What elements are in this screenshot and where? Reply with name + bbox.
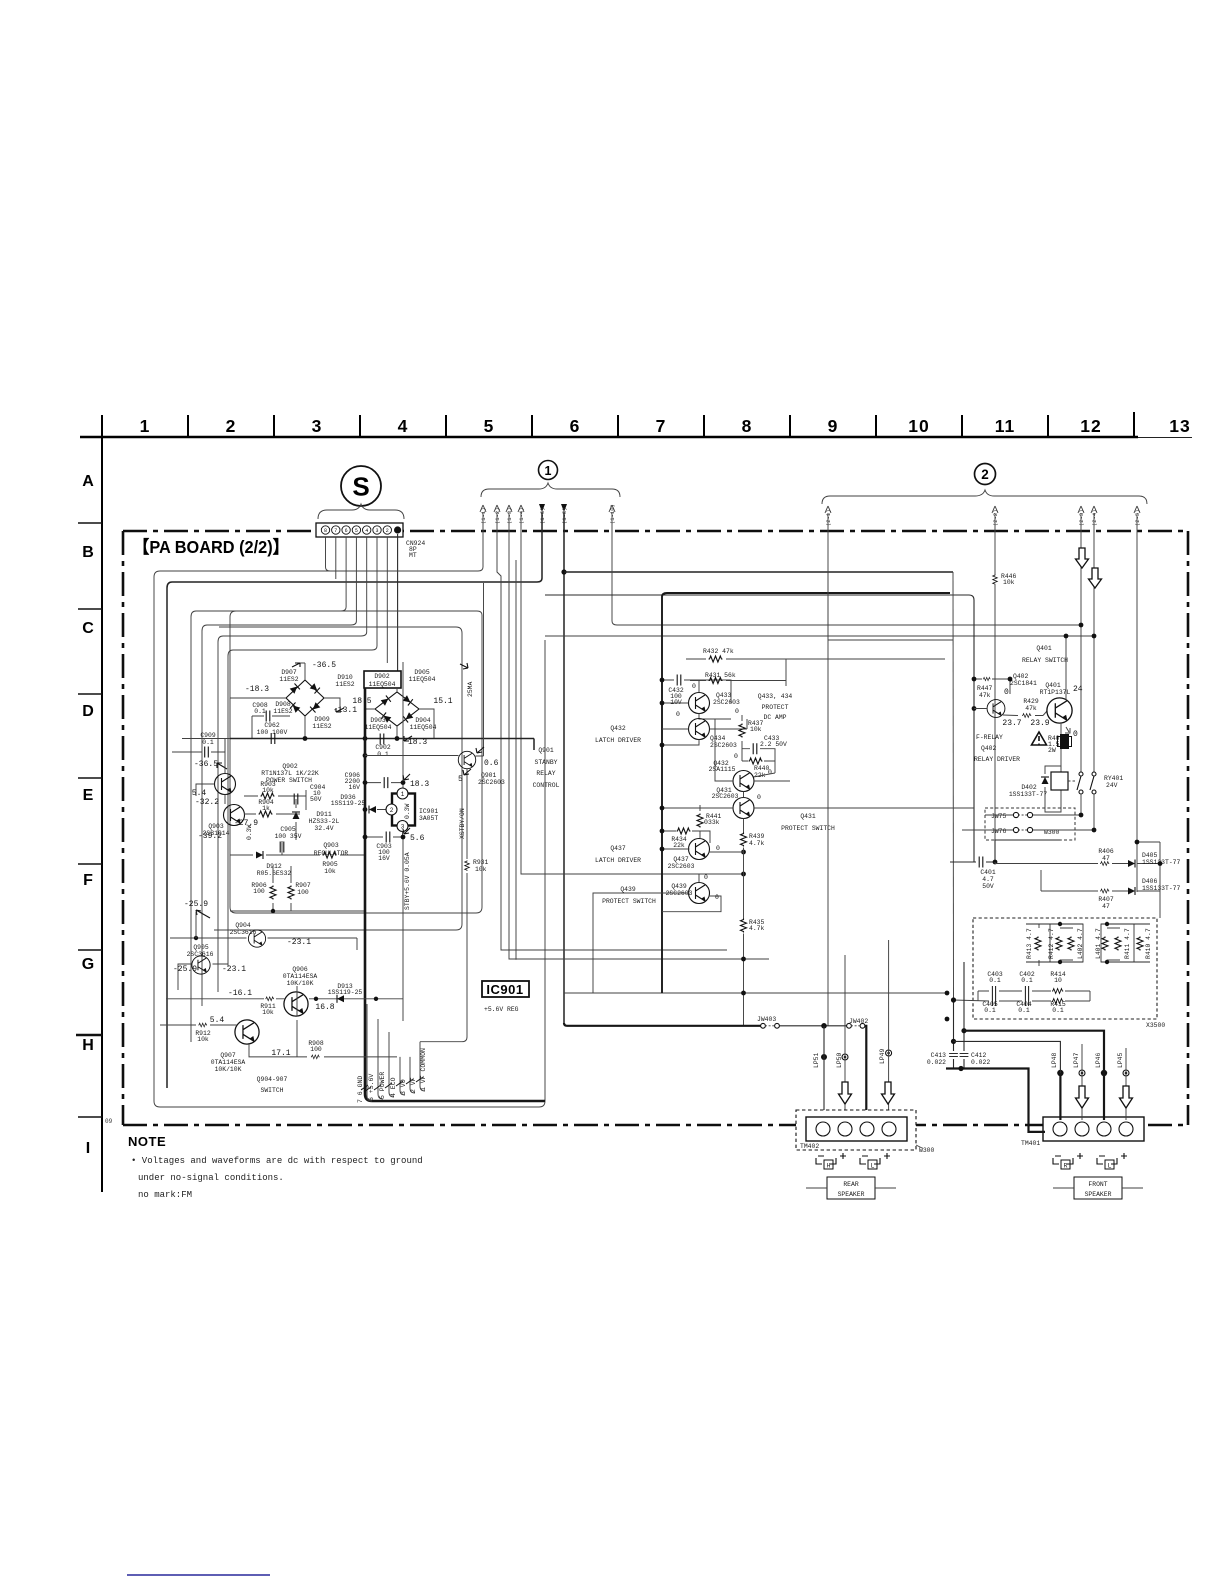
- svg-text:RELAY DRIVER: RELAY DRIVER: [974, 756, 1020, 763]
- FRONT SPEAKER: [1074, 1177, 1122, 1199]
- svg-text:2SC2603: 2SC2603: [668, 863, 695, 870]
- svg-text:X3500: X3500: [1146, 1022, 1165, 1029]
- svg-text:IC901: IC901: [486, 982, 523, 997]
- cap C433: [760, 735, 787, 748]
- svg-text:C962: C962: [264, 722, 280, 729]
- svg-text:(2-3): (2-3): [1078, 509, 1085, 526]
- svg-text:2SC2603: 2SC2603: [713, 699, 740, 706]
- hollow arrow LP47: [1076, 1086, 1089, 1108]
- svg-text:3: 3: [312, 416, 323, 436]
- svg-text:LATCH DRIVER: LATCH DRIVER: [595, 857, 641, 864]
- svg-text:1SS119-25: 1SS119-25: [331, 800, 366, 807]
- svg-text:0.1: 0.1: [1021, 977, 1033, 984]
- column numbers: [140, 416, 1191, 436]
- svg-text:D905: D905: [414, 669, 430, 676]
- svg-text:(2-2): (2-2): [992, 509, 999, 526]
- circled ref 2: [822, 464, 1147, 505]
- svg-text:7: 7: [334, 528, 337, 534]
- svg-text:R447: R447: [977, 685, 993, 692]
- svg-text:100: 100: [253, 888, 265, 895]
- svg-text:16V: 16V: [378, 855, 390, 862]
- cap C906: [345, 772, 361, 791]
- svg-text:18.3: 18.3: [410, 780, 429, 789]
- brace above CN924: [318, 504, 404, 519]
- heavy GND bus x364: [365, 688, 545, 1101]
- wire 1-2 drop: [497, 512, 727, 950]
- transistor Q905: [192, 956, 210, 974]
- svg-text:L401 4.7: L401 4.7: [1095, 928, 1102, 959]
- svg-text:R905: R905: [322, 861, 338, 868]
- svg-text:D405: D405: [1142, 852, 1158, 859]
- transistor Q401: [1047, 698, 1072, 723]
- svg-text:0.022: 0.022: [971, 1059, 990, 1066]
- svg-text:32.4V: 32.4V: [314, 825, 333, 832]
- svg-text:10k: 10k: [262, 1009, 274, 1016]
- wire pin8 drop: [326, 537, 479, 571]
- svg-text:5.4: 5.4: [192, 789, 207, 798]
- svg-text:D: D: [82, 703, 94, 720]
- svg-text:0.1: 0.1: [1018, 1007, 1030, 1014]
- svg-text:LP47: LP47: [1073, 1052, 1080, 1068]
- coil L402: [1068, 937, 1074, 951]
- svg-text:2: 2: [226, 416, 237, 436]
- svg-text:Q907: Q907: [220, 1052, 236, 1059]
- node 2-3: [1079, 623, 1084, 628]
- wire pin3 loop: [228, 537, 377, 966]
- svg-text:Q439: Q439: [620, 886, 636, 893]
- svg-text:24: 24: [1073, 685, 1083, 694]
- node j1: [561, 569, 566, 574]
- svg-text:LP49: LP49: [879, 1048, 886, 1064]
- row letters: [82, 473, 94, 1157]
- transistor Q432: [733, 771, 754, 792]
- diode D913: [337, 995, 344, 1003]
- svg-text:Q905: Q905: [193, 944, 209, 951]
- svg-text:2SC3616: 2SC3616: [187, 951, 214, 958]
- cap C401: [979, 857, 983, 868]
- svg-text:R412 4.7: R412 4.7: [1048, 928, 1055, 959]
- svg-text:Q904-907: Q904-907: [257, 1076, 288, 1083]
- svg-text:4 ECO: 4 ECO: [390, 1077, 397, 1097]
- svg-text:0.1: 0.1: [1052, 1007, 1064, 1014]
- resistor R908: [311, 1055, 320, 1059]
- row ticks: [76, 523, 102, 1117]
- svg-text:33k: 33k: [708, 819, 720, 826]
- zener D911: [292, 812, 300, 819]
- svg-text:(2-1): (2-1): [825, 509, 832, 526]
- resistor R447: [983, 677, 991, 680]
- Q431 PROTECT SWITCH label: [781, 813, 835, 832]
- svg-text:-36.5: -36.5: [312, 661, 336, 670]
- svg-text:0: 0: [716, 845, 720, 852]
- svg-text:Q402: Q402: [1013, 673, 1029, 680]
- svg-text:2SC2603: 2SC2603: [478, 779, 505, 786]
- svg-text:-16.1: -16.1: [228, 989, 252, 998]
- svg-text:100: 100: [310, 1046, 322, 1053]
- svg-text:0.022: 0.022: [927, 1059, 946, 1066]
- svg-text:【PA BOARD (2/2)】: 【PA BOARD (2/2)】: [133, 537, 289, 557]
- svg-text:C905: C905: [280, 826, 296, 833]
- svg-text:-13.1: -13.1: [333, 706, 357, 715]
- svg-text:5: 5: [484, 416, 495, 436]
- wire y595 right: [545, 595, 974, 862]
- inner rect R2: [214, 627, 462, 930]
- wire y571 to center box: [564, 571, 953, 573]
- svg-text:2: 2: [390, 807, 394, 814]
- wire 2-1 drop: [827, 513, 829, 1026]
- cap C962: [230, 698, 252, 739]
- svg-text:0: 0: [1004, 688, 1009, 697]
- svg-text:Q903: Q903: [208, 823, 224, 830]
- wire c413 verticals: [954, 962, 965, 1069]
- polarity marks TM402: [818, 1153, 890, 1159]
- transistor Q402: [987, 700, 1005, 718]
- resistor R435: [749, 919, 765, 932]
- svg-text:11ES2: 11ES2: [335, 681, 354, 688]
- svg-text:23.7: 23.7: [1002, 719, 1021, 728]
- svg-text:-36.5: -36.5: [194, 760, 218, 769]
- svg-text:1SS133T-77: 1SS133T-77: [1142, 885, 1181, 892]
- svg-text:4: 4: [365, 528, 368, 534]
- diode D936: [369, 806, 376, 814]
- svg-text:D402: D402: [1021, 784, 1037, 791]
- svg-text:2SC3616: 2SC3616: [230, 929, 257, 936]
- svg-text:23.9: 23.9: [1030, 719, 1049, 728]
- svg-text:D908: D908: [275, 701, 291, 708]
- svg-text:10K/10K: 10K/10K: [215, 1066, 242, 1073]
- Q901 STANBY RELAY CONTROL label: [533, 747, 560, 789]
- svg-text:0: 0: [757, 794, 761, 801]
- svg-text:CONTROL: CONTROL: [533, 782, 560, 789]
- svg-text:0: 0: [715, 894, 719, 901]
- svg-text:5 POWER: 5 POWER: [379, 1072, 386, 1099]
- transistor Q433: [689, 693, 710, 714]
- relay contacts: [1077, 772, 1096, 794]
- svg-text:Q901: Q901: [538, 747, 554, 754]
- wire 1-8 thick bus: [563, 512, 565, 1024]
- svg-text:JW402: JW402: [849, 1018, 868, 1025]
- svg-text:22k: 22k: [673, 842, 685, 849]
- svg-text:RY401: RY401: [1104, 775, 1123, 782]
- svg-text:11EQ504: 11EQ504: [365, 724, 392, 731]
- svg-text:0.6: 0.6: [484, 759, 499, 768]
- diode D402: [1041, 777, 1049, 784]
- transistor Q904: [248, 930, 265, 947]
- svg-text:NOTE: NOTE: [128, 1134, 166, 1149]
- F-RELAY Q402 RELAY DRIVER label: [974, 734, 1020, 763]
- wire 1-3 drop: [509, 512, 769, 959]
- svg-text:TM401: TM401: [1021, 1140, 1040, 1147]
- svg-text:11: 11: [995, 416, 1016, 436]
- svg-text:HZS33-2L: HZS33-2L: [309, 818, 340, 825]
- svg-text:5: 5: [355, 528, 358, 534]
- svg-text:F-RELAY: F-RELAY: [976, 734, 1003, 741]
- svg-text:RELAY SWITCH: RELAY SWITCH: [1022, 657, 1068, 664]
- REGULATOR label: [314, 842, 349, 857]
- svg-text:Q434: Q434: [710, 735, 726, 742]
- svg-text:LP45: LP45: [1117, 1052, 1124, 1068]
- svg-text:• Voltages and waveforms are d: • Voltages and waveforms are dc with res…: [131, 1156, 423, 1166]
- svg-text:0.1: 0.1: [202, 739, 214, 746]
- resistor R440: [754, 765, 770, 779]
- svg-text:2: 2: [981, 467, 989, 482]
- svg-text:13: 13: [1169, 416, 1190, 436]
- svg-text:TM402: TM402: [800, 1143, 819, 1150]
- svg-text:(1-2): (1-2): [494, 507, 501, 524]
- svg-text:2SA1115: 2SA1115: [709, 766, 736, 773]
- wire Q902: [196, 739, 225, 805]
- svg-text:R439: R439: [749, 833, 765, 840]
- zero annotations: [676, 683, 772, 901]
- IC901 regulator block: [392, 794, 415, 826]
- svg-text:2.2 50V: 2.2 50V: [760, 741, 787, 748]
- fusible resistor R401: [1048, 735, 1064, 754]
- resistor R412: [1056, 937, 1062, 951]
- svg-text:-39.2: -39.2: [198, 832, 222, 841]
- svg-text:L: L: [1108, 1163, 1112, 1170]
- svg-text:12: 12: [1080, 416, 1101, 436]
- svg-text:R413 4.7: R413 4.7: [1026, 928, 1033, 959]
- svg-text:47k: 47k: [1025, 705, 1037, 712]
- svg-text:LP51: LP51: [813, 1052, 820, 1068]
- REAR SPEAKER: [827, 1177, 875, 1199]
- svg-text:R907: R907: [295, 882, 311, 889]
- resistor R439: [749, 833, 765, 847]
- wire to LP48: [954, 1041, 1061, 1073]
- cap C909: [200, 732, 216, 746]
- coil group boxes: [1050, 924, 1083, 962]
- svg-text:7: 7: [656, 416, 667, 436]
- svg-text:2SC2603: 2SC2603: [710, 742, 737, 749]
- svg-text:1: 1: [545, 464, 552, 478]
- transistor Q434: [689, 719, 710, 740]
- svg-text:JW76: JW76: [991, 828, 1007, 835]
- svg-text:1 VF COMMON: 1 VF COMMON: [420, 1048, 427, 1091]
- relay coil RY401: [1051, 772, 1068, 790]
- resistor R911: [265, 997, 274, 1001]
- svg-text:47: 47: [1102, 903, 1110, 910]
- svg-text:S: S: [352, 472, 369, 502]
- hollow arrow LP50: [839, 1082, 852, 1104]
- group-1 pin arrows: [480, 504, 616, 524]
- svg-text:25MA: 25MA: [467, 681, 474, 697]
- svg-text:10K/10K: 10K/10K: [287, 980, 314, 987]
- svg-text:Q439: Q439: [671, 883, 687, 890]
- wire y636 to 2-4: [545, 635, 1094, 637]
- svg-text:R429: R429: [1023, 698, 1039, 705]
- svg-text:11ES2: 11ES2: [279, 676, 298, 683]
- caps C405 C404 R415 row: [992, 996, 995, 1006]
- X3500 dashed box: [973, 918, 1157, 1019]
- svg-text:D903: D903: [370, 717, 386, 724]
- svg-text:Q901: Q901: [481, 772, 497, 779]
- svg-text:100: 100: [297, 889, 309, 896]
- svg-text:LP46: LP46: [1095, 1052, 1102, 1068]
- svg-text:11ES2: 11ES2: [273, 708, 292, 715]
- svg-text:10k: 10k: [750, 726, 762, 733]
- wire 2-3 drop: [1080, 513, 1082, 772]
- svg-text:H: H: [827, 1163, 831, 1170]
- resistor R434: [677, 828, 691, 834]
- cap C905: [275, 826, 302, 840]
- brace 2: [822, 490, 1147, 504]
- wire pin4 loop: [218, 537, 367, 992]
- svg-text:R05.6ES32: R05.6ES32: [257, 870, 292, 877]
- svg-text:A: A: [82, 473, 94, 490]
- svg-text:(2-4): (2-4): [1091, 509, 1098, 526]
- center box: [662, 593, 950, 993]
- svg-text:I: I: [86, 1140, 90, 1157]
- svg-text:16V: 16V: [348, 784, 360, 791]
- svg-text:0.1: 0.1: [989, 977, 1001, 984]
- svg-text:0.3W: 0.3W: [404, 803, 411, 819]
- bottom pin comb: [367, 1004, 425, 1101]
- svg-text:-18.3: -18.3: [245, 685, 269, 694]
- svg-text:10k: 10k: [324, 868, 336, 875]
- svg-text:0TA114ESA: 0TA114ESA: [283, 973, 318, 980]
- svg-text:FRONT: FRONT: [1088, 1181, 1107, 1188]
- svg-text:0.1: 0.1: [984, 1007, 996, 1014]
- resistor R410: [1137, 937, 1143, 951]
- svg-text:JW75: JW75: [991, 813, 1007, 820]
- Q437 LATCH DRIVER label: [595, 845, 641, 864]
- svg-text:09: 09: [105, 1118, 113, 1125]
- svg-text:Q433, 434: Q433, 434: [758, 693, 793, 700]
- svg-text:-25.9: -25.9: [184, 900, 208, 909]
- svg-text:6 +5.6V: 6 +5.6V: [368, 1074, 375, 1101]
- svg-text:5: 5: [458, 775, 463, 784]
- svg-text:L402 4.7: L402 4.7: [1077, 928, 1084, 959]
- D902 label box: [364, 671, 401, 688]
- svg-text:10: 10: [908, 416, 929, 436]
- svg-text:5.6: 5.6: [410, 834, 425, 843]
- svg-text:Q431: Q431: [800, 813, 816, 820]
- svg-text:4: 4: [398, 416, 409, 436]
- svg-text:D910: D910: [337, 674, 353, 681]
- svg-text:6: 6: [570, 416, 581, 436]
- svg-text:C401: C401: [980, 869, 996, 876]
- svg-text:47: 47: [1102, 855, 1110, 862]
- resistor R912: [198, 1023, 207, 1027]
- svg-text:47k: 47k: [979, 692, 991, 699]
- svg-text:0.1: 0.1: [377, 751, 389, 758]
- svg-text:-25.9: -25.9: [173, 965, 197, 974]
- hollow arrows top right: [1076, 548, 1102, 588]
- svg-text:0: 0: [704, 874, 708, 881]
- svg-text:24V: 24V: [1106, 782, 1118, 789]
- wire top right loop: [828, 571, 953, 640]
- resistor R411: [1115, 937, 1121, 951]
- wire 1-10 drop: [612, 512, 1082, 625]
- svg-text:6: 6: [345, 528, 348, 534]
- svg-text:D907: D907: [281, 669, 297, 676]
- svg-text:100 100V: 100 100V: [257, 729, 288, 736]
- svg-text:REGULATOR: REGULATOR: [314, 850, 349, 857]
- resistor R429: [1022, 714, 1031, 718]
- wire loop 1-6 thick: [167, 512, 542, 1088]
- wire x953 center box right: [952, 572, 955, 1000]
- svg-text:D909: D909: [314, 716, 330, 723]
- svg-text:C412: C412: [971, 1052, 987, 1059]
- svg-text:8: 8: [742, 416, 753, 436]
- circled ref 1: [481, 461, 620, 498]
- svg-text:R931: R931: [473, 859, 489, 866]
- svg-text:1SS119-25: 1SS119-25: [328, 989, 363, 996]
- coil bus top/bottom: [1039, 924, 1120, 966]
- svg-text:STANBY: STANBY: [534, 759, 557, 766]
- svg-text:0.1: 0.1: [254, 708, 266, 715]
- svg-text:R411 4.7: R411 4.7: [1124, 928, 1131, 959]
- wire loop 1-1 outer: [154, 512, 545, 1107]
- jumper box W300: [985, 808, 1075, 840]
- svg-text:SPEAKER: SPEAKER: [1085, 1191, 1112, 1198]
- svg-text:10: 10: [1054, 977, 1062, 984]
- R L tags: [1053, 1158, 1117, 1164]
- bridge rectifier D907-D910: [286, 680, 324, 716]
- wire 1-4 drop: [516, 512, 947, 993]
- svg-text:(1-1): (1-1): [480, 507, 487, 524]
- svg-text:0.3W: 0.3W: [246, 824, 253, 840]
- svg-text:18.3: 18.3: [408, 738, 427, 747]
- bottom blue line: [127, 1574, 270, 1576]
- svg-text:R440: R440: [754, 765, 770, 772]
- resistor R441: [706, 813, 722, 826]
- svg-text:Q432: Q432: [610, 725, 626, 732]
- wire 2-5 drop: [1136, 513, 1138, 892]
- brace 1: [481, 483, 620, 497]
- svg-text:SPEAKER: SPEAKER: [838, 1191, 865, 1198]
- svg-text:+5.6V REG: +5.6V REG: [484, 1006, 519, 1013]
- svg-text:R432 47k: R432 47k: [703, 648, 734, 655]
- svg-text:B: B: [82, 544, 94, 561]
- inner rect R1: [230, 611, 482, 913]
- transistor Q902: [215, 774, 236, 795]
- wire pin1 drop: [397, 534, 399, 673]
- Q432 LATCH DRIVER label: [595, 725, 641, 744]
- thick bus to TM401 left: [946, 1069, 1045, 1132]
- terminal TM402: [796, 1110, 916, 1150]
- svg-text:0: 0: [734, 753, 738, 760]
- svg-text:2SC2603: 2SC2603: [666, 890, 693, 897]
- svg-text:0: 0: [1073, 730, 1078, 739]
- svg-text:2SC2603: 2SC2603: [712, 793, 739, 800]
- R936: [331, 794, 366, 807]
- resistor R437: [748, 720, 764, 733]
- node 2-4: [1092, 634, 1097, 639]
- Q433,434 PROTECT DC AMP label: [758, 693, 793, 721]
- IC901 ref box: [482, 981, 529, 997]
- wire pin7 loop: [335, 537, 337, 579]
- svg-text:no mark:FM: no mark:FM: [138, 1190, 192, 1200]
- svg-text:-23.1: -23.1: [287, 938, 311, 947]
- wire pin6 loop: [191, 537, 346, 1042]
- warning triangle: [1032, 732, 1047, 745]
- svg-text:Q906: Q906: [292, 966, 308, 973]
- caps C413 C412: [927, 1052, 946, 1066]
- svg-text:R: R: [1064, 1163, 1068, 1170]
- svg-text:11EQ504: 11EQ504: [410, 724, 437, 731]
- svg-text:REAR: REAR: [843, 1181, 859, 1188]
- Q401 RELAY SWITCH label: [1022, 645, 1068, 664]
- polarity marks TM401: [1055, 1153, 1127, 1159]
- svg-text:2: 2: [386, 528, 389, 534]
- terminal TM401: [1043, 1117, 1144, 1141]
- svg-text:2 VF: 2 VF: [410, 1077, 417, 1093]
- Q439 PROTECT SWITCH label: [602, 886, 656, 905]
- svg-text:(1-3): (1-3): [506, 507, 513, 524]
- resistor R407 diode D406: [1100, 889, 1109, 893]
- transistor Q901: [458, 751, 475, 768]
